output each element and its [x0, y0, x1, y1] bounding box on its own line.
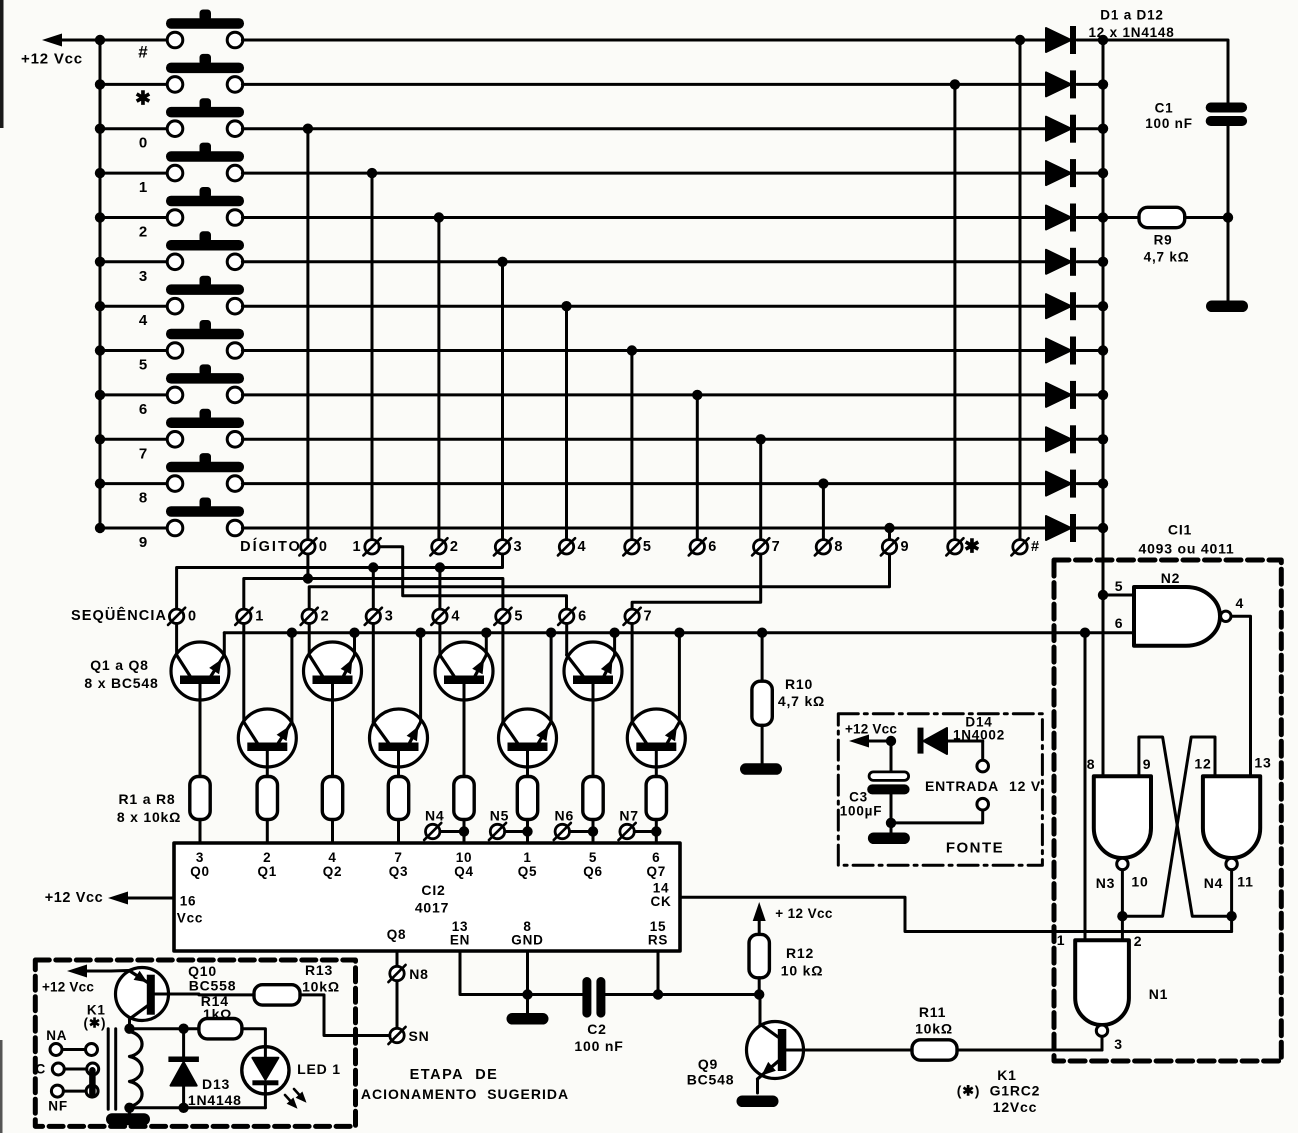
- junction: RS node: [653, 989, 663, 999]
- svg-text:3: 3: [513, 539, 521, 555]
- svg-text:2: 2: [450, 539, 458, 555]
- svg-text:+ 12 Vcc: + 12 Vcc: [775, 906, 833, 921]
- svg-text:CI2: CI2: [421, 882, 445, 898]
- junction: bus / row 4: [95, 301, 105, 311]
- wire: digit column drop (3): [501, 262, 504, 540]
- wire: switch 4 to diode D7: [242, 305, 1046, 308]
- svg-text:K1: K1: [997, 1067, 1017, 1083]
- ground (FONTE): [868, 833, 910, 845]
- node N8: [388, 965, 428, 982]
- wire: node to C2: [528, 993, 583, 996]
- node DIGITO 9: [881, 538, 909, 555]
- resistor R1 10k: [190, 777, 210, 844]
- wire: switch 3 to diode D6: [242, 260, 1046, 263]
- wire: digit column drop (4): [565, 306, 568, 539]
- svg-text:ACIONAMENTO SUGERIDA: ACIONAMENTO SUGERIDA: [361, 1086, 569, 1102]
- pin 1 (Q5): [518, 850, 538, 879]
- wire: common emitter bus to N2 pin 6: [224, 631, 1134, 634]
- svg-text:N1: N1: [1149, 986, 1169, 1002]
- key label "0": [139, 135, 147, 152]
- junction: emitter bus / Q8: [674, 628, 684, 638]
- node DIGITO 2: [430, 538, 458, 555]
- transistor Q8 BC548: [627, 709, 685, 777]
- svg-text:N7: N7: [619, 808, 639, 824]
- svg-text:0: 0: [188, 608, 196, 624]
- wire: diode cathode bus: [1102, 40, 1105, 595]
- junction: bottom rail / D13: [178, 1103, 188, 1113]
- wire: SEQ 5 to Q6 collector: [501, 624, 504, 723]
- svg-text:5: 5: [589, 850, 597, 865]
- wire: SEQ 6 to Q7 collector: [565, 624, 568, 656]
- node DIGITO 4: [558, 538, 586, 555]
- junction: row 9 / digit column: [884, 523, 894, 533]
- svg-text:Q8: Q8: [387, 927, 407, 942]
- wire: Q8 pin to N8: [396, 951, 399, 966]
- svg-text:C3: C3: [849, 790, 868, 805]
- node N5: [489, 808, 528, 841]
- pin 5 (Q6): [583, 850, 603, 879]
- wire: digit 9 to seq 2 (line C): [309, 554, 889, 609]
- node DIGITO 5: [623, 538, 651, 555]
- pin 13 EN: [450, 919, 470, 948]
- ground (C1/R9): [1206, 301, 1248, 313]
- svg-text:D1 a D12: D1 a D12: [1100, 8, 1163, 23]
- svg-text:N4: N4: [1204, 875, 1224, 891]
- resistor R7 10k: [583, 777, 603, 844]
- resistor R12 10k: [749, 934, 823, 994]
- svg-text:EN: EN: [450, 933, 470, 948]
- wire: switch * to diode D2: [242, 83, 1046, 86]
- wire: digit 1 to seq 6 (line D): [379, 547, 566, 609]
- wire: N8 to SN: [396, 981, 399, 1029]
- wire: to N1 pin 1: [1084, 633, 1087, 941]
- svg-text:1: 1: [1057, 932, 1066, 948]
- svg-text:SEQÜÊNCIA: SEQÜÊNCIA: [71, 606, 167, 624]
- switch S3 ("3" key): [100, 231, 244, 269]
- key label "4": [139, 312, 148, 329]
- wire: C2 to RS node: [605, 993, 759, 996]
- svg-text:7: 7: [139, 445, 147, 462]
- key label "*": [135, 88, 151, 109]
- svg-text:N2: N2: [1161, 570, 1181, 586]
- junction: D5 cathode / bus: [1098, 212, 1108, 222]
- junction: emitter bus / Q5: [481, 628, 491, 638]
- junction: row 8 / digit column: [818, 478, 828, 488]
- junction: C3 / entrada -: [886, 818, 896, 828]
- svg-text:R13: R13: [305, 962, 333, 978]
- transistor Q10 BC558: [111, 968, 199, 1029]
- resistor R14 1k: [199, 993, 242, 1039]
- svg-text:9: 9: [900, 539, 908, 555]
- +12 Vcc arrow (FONTE): [845, 722, 897, 748]
- wire: N2 output to N4 pin 13: [1231, 616, 1251, 776]
- junction: N4 tap: [459, 826, 469, 836]
- svg-text:✱: ✱: [964, 536, 980, 557]
- wire: digit column drop (6): [696, 395, 699, 540]
- junction: row # / digit column: [1015, 35, 1025, 45]
- wire: digit 0 to seq 1/5 (line B): [244, 554, 503, 609]
- node N4: [424, 808, 464, 841]
- svg-text:8: 8: [139, 490, 147, 507]
- svg-text:4: 4: [577, 539, 585, 555]
- wire: N2 pin 5: [1103, 594, 1134, 597]
- svg-text:(✱) G1RC2: (✱) G1RC2: [957, 1083, 1041, 1099]
- svg-text:100 nF: 100 nF: [574, 1038, 623, 1054]
- svg-text:3: 3: [385, 608, 393, 624]
- wire: digit column drop (9): [888, 528, 891, 540]
- junction: row 7 / digit column: [756, 434, 766, 444]
- wire: collector node to R14/D13: [130, 1027, 199, 1030]
- switch S6 ("6" key): [100, 364, 244, 402]
- svg-text:Q5: Q5: [518, 864, 538, 879]
- switch S8 ("8" key): [100, 453, 244, 491]
- label D1 a D12 / 12 x 1N4148: [1088, 8, 1174, 41]
- junction: row * / digit column: [950, 79, 960, 89]
- junction: bus / row *: [95, 79, 105, 89]
- svg-text:5: 5: [514, 608, 522, 624]
- svg-text:4: 4: [1236, 595, 1245, 611]
- svg-text:4: 4: [328, 850, 336, 865]
- NAND gate N4: [1194, 755, 1271, 892]
- resistor R4 10k: [388, 777, 408, 844]
- wire: Q4 emitter to bus: [419, 633, 422, 722]
- junction: EN/GND: [522, 989, 532, 999]
- svg-text:12 x 1N4148: 12 x 1N4148: [1088, 25, 1174, 40]
- svg-text:6: 6: [1115, 615, 1124, 631]
- wire: digit 3 to seq 0/3/4 (line A): [177, 554, 503, 609]
- svg-text:4017: 4017: [415, 900, 449, 916]
- svg-text:RS: RS: [648, 933, 668, 948]
- svg-text:4: 4: [139, 312, 148, 329]
- svg-text:6: 6: [652, 850, 660, 865]
- node DIGITO 8: [815, 538, 843, 555]
- diode D8 1N4148: [1046, 337, 1103, 365]
- wire: SEQ 4 to Q5 collector: [438, 624, 441, 656]
- switch S4 ("4" key): [100, 276, 244, 314]
- +12 Vcc arrow (ETAPA): [42, 965, 111, 995]
- svg-text:N4: N4: [425, 808, 445, 824]
- svg-text:5: 5: [1115, 578, 1124, 594]
- pin 3 (Q0): [190, 850, 210, 879]
- label ENTRADA 12 V: [925, 778, 1041, 794]
- svg-text:C2: C2: [587, 1021, 607, 1037]
- svg-text:1: 1: [255, 608, 263, 624]
- svg-text:Q3: Q3: [389, 864, 409, 879]
- svg-text:ETAPA DE: ETAPA DE: [410, 1067, 499, 1083]
- junction: D2 cathode / bus: [1098, 79, 1108, 89]
- wire: switch 7 to diode D10: [242, 438, 1046, 441]
- wire: diode bus to N3 pin 8: [1102, 595, 1105, 776]
- svg-text:N5: N5: [490, 808, 510, 824]
- switch Ssharp ("#" key): [100, 10, 244, 48]
- pin Q8: [387, 927, 407, 942]
- key label "9": [139, 534, 147, 551]
- junction: bus / row 7: [95, 434, 105, 444]
- svg-text:2: 2: [263, 850, 271, 865]
- svg-text:DÍGITO: DÍGITO: [240, 538, 302, 555]
- relay K1 coil: [108, 1029, 142, 1110]
- junction: D9 cathode / bus: [1098, 390, 1108, 400]
- junction: emitter bus / Q2: [287, 628, 297, 638]
- wire: switch 6 to diode D9: [242, 393, 1046, 396]
- node SEQUENCIA 0: [168, 608, 196, 625]
- junction: emitter bus / Q7: [609, 628, 619, 638]
- IC CI1 box (4093 ou 4011): [1054, 522, 1281, 1062]
- svg-text:BC548: BC548: [687, 1072, 735, 1088]
- svg-text:6: 6: [578, 608, 586, 624]
- svg-text:1N4002: 1N4002: [953, 728, 1005, 743]
- junction: bus / row #: [95, 35, 105, 45]
- junction: bus / R10: [757, 628, 767, 638]
- resistor R6 10k: [517, 777, 537, 844]
- junction: N5 tap: [522, 826, 532, 836]
- transistor Q5 BC548: [435, 642, 493, 777]
- wire: digit column drop (0): [306, 129, 309, 540]
- junction: D10 cathode / bus: [1098, 434, 1108, 444]
- svg-text:N8: N8: [409, 966, 429, 982]
- svg-text:ENTRADA: ENTRADA: [925, 778, 999, 794]
- svg-text:2: 2: [1134, 933, 1143, 949]
- junction: bus / row 0: [95, 124, 105, 134]
- svg-text:Q6: Q6: [583, 864, 603, 879]
- svg-text:NF: NF: [48, 1098, 68, 1113]
- FONTE box: [838, 714, 1042, 866]
- wire: switch 9 to diode D12: [242, 527, 1046, 530]
- junction: emitter bus / Q4: [415, 628, 425, 638]
- svg-text:8: 8: [1087, 756, 1096, 772]
- wire: N1 output: [1101, 1036, 1104, 1050]
- IC CI2 4017: [174, 843, 680, 951]
- label DIGITO: [240, 538, 302, 555]
- +12 Vcc arrow (CI2 pin 16): [45, 890, 174, 906]
- label SEQUENCIA: [71, 606, 167, 624]
- label Q1 a Q8 / 8 x BC548: [84, 657, 158, 691]
- svg-text:#: #: [138, 43, 148, 62]
- junction: row 1 / digit column: [367, 168, 377, 178]
- junction: D1 cathode / bus: [1098, 35, 1108, 45]
- transistor Q1 BC548: [171, 642, 229, 777]
- terminal ENTRADA +: [977, 741, 989, 772]
- svg-text:#: #: [1031, 539, 1039, 555]
- svg-text:100µF: 100µF: [840, 804, 883, 819]
- NAND gate N3: [1087, 756, 1152, 891]
- diode D3 1N4148: [1046, 115, 1103, 143]
- junction: line B / digit0: [303, 573, 313, 583]
- ETAPA box: [35, 960, 355, 1126]
- NAND gate N2: [1115, 570, 1244, 646]
- diode D4 1N4148: [1046, 159, 1103, 187]
- svg-text:SN: SN: [408, 1028, 429, 1044]
- svg-text:6: 6: [708, 539, 716, 555]
- svg-text:12Vcc: 12Vcc: [993, 1099, 1037, 1115]
- svg-text:3: 3: [139, 268, 147, 285]
- svg-text:Q7: Q7: [646, 864, 666, 879]
- wire: C1 to R9 node: [1227, 126, 1230, 218]
- junction: emitter bus / Q3: [349, 628, 359, 638]
- junction: bus / row 2: [95, 212, 105, 222]
- node SEQUENCIA 2: [301, 608, 329, 625]
- transistor Q6 BC548: [499, 709, 557, 777]
- junction: D13 top: [178, 1023, 188, 1033]
- wire: SEQ 1 to Q2 collector: [242, 624, 245, 723]
- node DIGITO 6: [689, 538, 717, 555]
- diode D13 1N4148: [168, 1029, 241, 1108]
- wire: switch 0 to diode D3: [242, 127, 1046, 130]
- junction: D8 cathode / bus: [1098, 345, 1108, 355]
- junction: Q10 collector node: [124, 1023, 134, 1033]
- diode D10 1N4148: [1046, 425, 1103, 453]
- svg-text:C: C: [36, 1062, 47, 1077]
- svg-text:0: 0: [139, 135, 147, 152]
- junction: N6 tap: [588, 826, 598, 836]
- key label "3": [139, 268, 147, 285]
- wire: Q7 emitter to bus: [613, 633, 616, 655]
- wire: Q6 emitter to bus: [550, 633, 553, 722]
- junction: N3 out: [1117, 911, 1127, 921]
- svg-text:CK: CK: [650, 894, 671, 909]
- junction: bus / row 9: [95, 523, 105, 533]
- junction: bus / row 5: [95, 345, 105, 355]
- svg-text:Q4: Q4: [454, 864, 474, 879]
- resistor R11 10k: [912, 1004, 957, 1060]
- svg-text:3: 3: [196, 850, 204, 865]
- svg-text:GND: GND: [511, 933, 543, 948]
- wire: latch crossover (pin9 to N4 out): [1139, 737, 1232, 916]
- svg-text:12: 12: [1194, 756, 1211, 772]
- svg-text:CI1: CI1: [1168, 522, 1192, 538]
- junction: bus / row 6: [95, 390, 105, 400]
- diode D9 1N4148: [1046, 381, 1103, 409]
- transistor Q3 BC548: [304, 642, 362, 777]
- wire: digit column drop (1): [371, 173, 374, 539]
- wire: Q1 emitter to bus: [223, 633, 226, 655]
- switch S9 ("9" key): [100, 498, 244, 536]
- wire: digit 7 to seq 7 (line E): [632, 554, 761, 609]
- junction: bottom rail / coil: [124, 1103, 134, 1113]
- svg-text:✱: ✱: [135, 88, 151, 109]
- junction: pin6/pin1 tap: [1080, 628, 1090, 638]
- terminal ENTRADA -: [891, 798, 989, 823]
- wire: bottom rail (coil/D13/LED): [130, 1106, 266, 1109]
- resistor R10 4,7k: [752, 633, 825, 764]
- junction: D4 cathode / bus: [1098, 168, 1108, 178]
- svg-text:4: 4: [451, 608, 459, 624]
- diode D6 1N4148: [1046, 248, 1103, 276]
- switch Sstar ("*" key): [100, 54, 244, 92]
- svg-text:(✱): (✱): [84, 1016, 107, 1031]
- wire: R11 to N1 output: [957, 1049, 1102, 1052]
- NAND gate N1: [1057, 932, 1169, 1052]
- node DIGITO 1: [352, 538, 380, 555]
- wire: switch 8 to diode D11: [242, 482, 1046, 485]
- ground (CI2 pin 8): [507, 1013, 549, 1025]
- resistor R5 10k: [454, 777, 474, 844]
- resistor R3 10k: [322, 777, 342, 844]
- junction: line A / seq3: [368, 562, 378, 572]
- svg-text:8: 8: [834, 539, 842, 555]
- label Q10 BC558: [188, 963, 236, 994]
- svg-text:10kΩ: 10kΩ: [915, 1021, 953, 1037]
- label K1 G1RC2 12Vcc: [957, 1067, 1041, 1115]
- junction: R9/C1 node: [1223, 212, 1233, 222]
- wire: switch # to diode D1: [242, 39, 1046, 42]
- diode D2 1N4148: [1046, 70, 1103, 98]
- diode D12 1N4148: [1046, 514, 1103, 542]
- svg-text:5: 5: [643, 539, 651, 555]
- svg-text:R9: R9: [1154, 233, 1173, 248]
- svg-text:9: 9: [139, 534, 147, 551]
- svg-text:Q1: Q1: [257, 864, 277, 879]
- svg-text:10: 10: [1131, 874, 1148, 890]
- junction: bus / row 1: [95, 168, 105, 178]
- svg-text:FONTE: FONTE: [946, 840, 1004, 857]
- node DIGITO sharp: [1011, 538, 1039, 555]
- junction: R12 / Q9 collector: [754, 989, 764, 999]
- capacitor C3 100uF: [840, 741, 910, 833]
- key label "2": [139, 224, 147, 241]
- svg-text:8 x BC548: 8 x BC548: [84, 675, 158, 691]
- label ETAPA DE ACIONAMENTO SUGERIDA: [361, 1067, 569, 1102]
- LED1: [242, 1029, 341, 1108]
- wire: switch 2 to diode D5: [242, 216, 1046, 219]
- svg-text:11: 11: [1237, 874, 1253, 890]
- key label "8": [139, 490, 147, 507]
- svg-text:7: 7: [644, 608, 652, 624]
- pin 15 RS: [648, 919, 668, 948]
- svg-text:Vcc: Vcc: [177, 911, 203, 926]
- key label "#": [138, 43, 148, 62]
- +12 Vcc arrow (R12): [753, 902, 833, 936]
- svg-text:1kΩ: 1kΩ: [203, 1006, 232, 1022]
- ground (relay): [106, 1108, 150, 1126]
- wire: bus top to C1: [1103, 40, 1228, 103]
- node SEQUENCIA 6: [558, 608, 586, 625]
- diode D14 1N4002: [918, 715, 1006, 755]
- svg-text:7: 7: [772, 539, 780, 555]
- key label "1": [139, 179, 147, 196]
- wire: Q2 emitter to bus: [290, 633, 293, 722]
- wire: node to ground: [1227, 218, 1230, 301]
- diode D5 1N4148: [1046, 204, 1103, 232]
- key label "5": [139, 357, 147, 374]
- node DIGITO star: [946, 536, 980, 557]
- wire: switch 1 to diode D4: [242, 172, 1046, 175]
- net +12Vcc: left supply bus: [99, 40, 102, 528]
- junction: FONTE +12 node: [886, 736, 896, 746]
- wire: SEQ 0 to Q1 collector: [175, 624, 178, 656]
- svg-text:0: 0: [319, 539, 327, 555]
- svg-text:4,7 kΩ: 4,7 kΩ: [778, 693, 825, 709]
- node DIGITO 0: [299, 538, 327, 555]
- node SN: [388, 1027, 429, 1044]
- junction: D6 cathode / bus: [1098, 257, 1108, 267]
- pin 2 (Q1): [257, 850, 277, 879]
- resistor R2 10k: [257, 777, 277, 844]
- junction: N4 out: [1226, 911, 1236, 921]
- switch S1 ("1" key): [100, 143, 244, 181]
- svg-text:NA: NA: [46, 1028, 67, 1043]
- svg-text:9: 9: [1143, 756, 1152, 772]
- junction: row 4 / digit column: [561, 301, 571, 311]
- pin 14 CK: [650, 881, 671, 910]
- junction: row 6 / digit column: [692, 390, 702, 400]
- svg-text:N3: N3: [1096, 875, 1116, 891]
- wire: N3 output to N1 pin 2: [1121, 870, 1124, 941]
- svg-text:Q9: Q9: [698, 1056, 718, 1072]
- pin 7 (Q3): [389, 850, 409, 879]
- svg-text:Q2: Q2: [323, 864, 343, 879]
- svg-text:Q1 a Q8: Q1 a Q8: [90, 657, 149, 673]
